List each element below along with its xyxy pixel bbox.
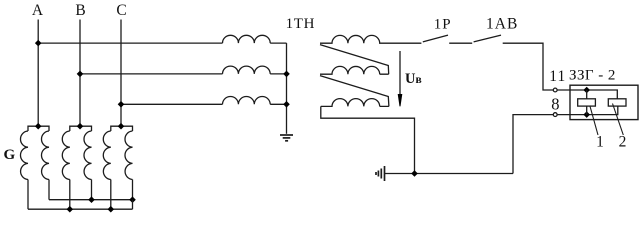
generator winding phase C top bar — [111, 126, 133, 131]
primary neutral bus wire — [286, 43, 288, 134]
element 1 rectangle — [578, 99, 596, 106]
diagonal link row2-row3 — [320, 76, 389, 107]
transformer 1TH primary coil phase B — [223, 66, 271, 74]
wire winding C right to neutral — [132, 180, 134, 200]
svg-text:C: C — [116, 2, 126, 19]
junction dot box bottom — [583, 111, 590, 118]
transformer 1TH primary coil phase A — [223, 35, 271, 43]
secondary winding row 2 coil — [320, 66, 389, 74]
wire tap C to 1TH — [121, 103, 223, 105]
svg-text:A: A — [32, 2, 44, 19]
junction dot box top — [583, 87, 590, 94]
wire element 1 bottom to dot — [586, 106, 588, 115]
element 2 rectangle — [608, 99, 626, 106]
generator winding phase A top bar — [28, 126, 49, 131]
svg-text:1: 1 — [596, 133, 604, 150]
generator winding C left coil — [103, 131, 111, 180]
wire coil B to neutral bus — [270, 73, 286, 75]
svg-text:11: 11 — [549, 68, 566, 85]
generator winding B right coil — [84, 131, 92, 180]
relay box ZZG-2 — [570, 85, 638, 119]
leader line to label 2 — [613, 104, 624, 136]
junction dot phase C tap — [118, 101, 125, 108]
wire coil A to neutral bus — [270, 42, 286, 44]
generator winding phase B top bar — [70, 126, 92, 131]
junction dot neutral-B — [283, 71, 290, 78]
secondary winding row 3 coil — [321, 99, 389, 107]
transformer 1TH primary coil phase C — [223, 97, 271, 105]
wire winding B right to neutral — [91, 180, 93, 200]
terminal circle 11 — [553, 88, 557, 92]
wire box top dot down to element 1 — [586, 90, 588, 99]
junction dot upper bus B — [88, 196, 95, 203]
phase A bus wire — [37, 20, 39, 127]
svg-text:G: G — [4, 147, 16, 163]
generator neutral bus lower — [28, 208, 133, 210]
wire winding C left to neutral — [110, 180, 112, 210]
junction dot winding C — [118, 123, 125, 130]
svg-text:8: 8 — [551, 95, 559, 114]
neutral bus connector — [132, 200, 134, 210]
junction dot ground node — [411, 170, 418, 177]
junction dot winding B — [77, 123, 84, 130]
svg-text:2: 2 — [619, 133, 627, 150]
generator winding B left coil — [62, 131, 70, 180]
wire tap B to 1TH — [80, 73, 223, 75]
svg-text:1P: 1P — [434, 16, 452, 32]
generator winding C right coil — [125, 131, 133, 180]
switch 1AB blade — [474, 35, 501, 42]
junction dot lower bus C — [108, 206, 115, 213]
terminal circle 8 — [553, 113, 557, 117]
generator winding A right coil — [41, 131, 49, 180]
wire 1AB to terminal 11 — [503, 43, 554, 90]
generator neutral bus upper — [49, 199, 133, 201]
leader line to label 1 — [590, 106, 598, 136]
svg-text:B: B — [75, 2, 85, 19]
wire terminal 8 into box — [557, 106, 618, 115]
svg-text:1TH: 1TH — [286, 16, 316, 32]
wire terminal 11 into box — [557, 90, 617, 99]
wire secondary bottom output — [321, 106, 415, 173]
ground primary neutral — [280, 135, 293, 141]
voltage arrow Uv — [399, 51, 401, 94]
svg-text:1AB: 1AB — [486, 15, 518, 32]
svg-text:ЗЗГ - 2: ЗЗГ - 2 — [569, 67, 616, 83]
svg-text:Uв: Uв — [405, 71, 422, 87]
wire coil C to neutral bus — [270, 103, 286, 105]
generator winding A left coil — [20, 131, 28, 180]
junction dot upper bus C — [129, 196, 136, 203]
junction dot phase B tap — [77, 71, 84, 78]
wire winding B left to neutral — [69, 180, 71, 210]
wire between switches — [449, 42, 472, 44]
junction dot lower bus B — [67, 206, 74, 213]
junction dot neutral-C — [283, 101, 290, 108]
ground at relay circuit — [376, 166, 385, 181]
wire ground to junction — [385, 173, 514, 175]
switch 1P blade — [423, 35, 448, 42]
junction dot winding A — [35, 123, 42, 130]
phase C bus wire — [120, 20, 122, 127]
diagonal link row1-row2 — [320, 45, 389, 75]
junction dot phase A tap — [35, 40, 42, 47]
phase B bus wire — [79, 20, 81, 127]
wire tap A to 1TH — [38, 42, 222, 44]
wire winding A right to neutral — [48, 180, 50, 200]
secondary winding row 1 coil — [320, 35, 421, 43]
wire up to terminal 8 — [513, 115, 553, 174]
wire winding A left to neutral — [27, 180, 29, 210]
